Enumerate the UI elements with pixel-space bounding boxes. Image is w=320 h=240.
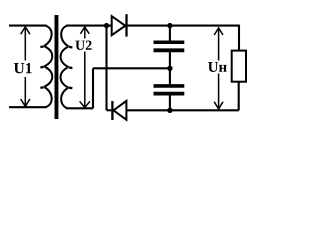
arrow Un — [214, 28, 223, 109]
wire secondary top — [66, 25, 111, 27]
node junction dot A — [104, 23, 109, 28]
wire primary top — [9, 25, 47, 27]
label Un — [208, 62, 227, 72]
label U1 — [14, 63, 32, 73]
label U2 — [75, 41, 91, 50]
transformer primary winding L1 — [40, 26, 52, 107]
capacitor C1 — [154, 26, 185, 69]
diode VD1 — [112, 14, 127, 36]
node junction dot C — [167, 66, 172, 71]
capacitor C2 — [154, 68, 185, 110]
arrow U2 — [80, 27, 90, 108]
transformer secondary winding L2 — [61, 26, 73, 108]
wire riser from secondary bottom to mid node — [92, 68, 94, 108]
diode VD2 — [107, 101, 127, 120]
wire secondary bottom — [66, 107, 93, 109]
node junction dot B — [167, 23, 172, 28]
arrow U1 — [21, 27, 30, 107]
wire bottom rail — [126, 109, 238, 111]
node junction dot D — [167, 108, 172, 113]
transformer core — [55, 15, 59, 119]
wire load top stem — [238, 26, 240, 51]
wire primary bottom — [9, 106, 47, 108]
wire top rail — [128, 25, 240, 27]
wire riser diode branch — [105, 26, 107, 111]
resistor Rn load — [232, 51, 246, 82]
wire load bottom stem — [238, 82, 240, 111]
wire mid node to capacitors midpoint — [93, 67, 170, 69]
